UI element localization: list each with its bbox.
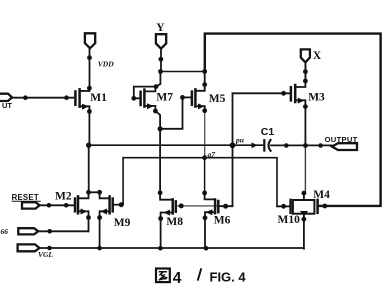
svg-text:M2: M2 [55,190,72,202]
svg-text:a7: a7 [208,150,216,159]
svg-text:FIG. 4: FIG. 4 [210,269,247,284]
svg-text:M9: M9 [114,217,131,229]
svg-text:4: 4 [173,270,182,287]
svg-text:pu: pu [235,135,244,144]
svg-text:OUTPUT: OUTPUT [325,135,358,144]
svg-text:RESET: RESET [12,193,39,202]
svg-text:66: 66 [1,227,9,236]
svg-text:M6: M6 [214,215,231,227]
svg-text:VDD: VDD [98,60,114,69]
svg-text:M3: M3 [308,91,325,103]
svg-text:X: X [313,50,322,62]
svg-text:M5: M5 [209,93,226,105]
svg-text:M7: M7 [156,92,173,104]
svg-text:C1: C1 [261,126,275,138]
svg-text:Y: Y [156,22,165,34]
svg-text:M8: M8 [166,216,183,228]
svg-text:M4: M4 [313,189,330,201]
svg-text:M10: M10 [278,214,301,226]
svg-text:UT: UT [2,101,12,110]
svg-text:M1: M1 [90,92,107,104]
svg-text:VGL: VGL [38,250,53,259]
